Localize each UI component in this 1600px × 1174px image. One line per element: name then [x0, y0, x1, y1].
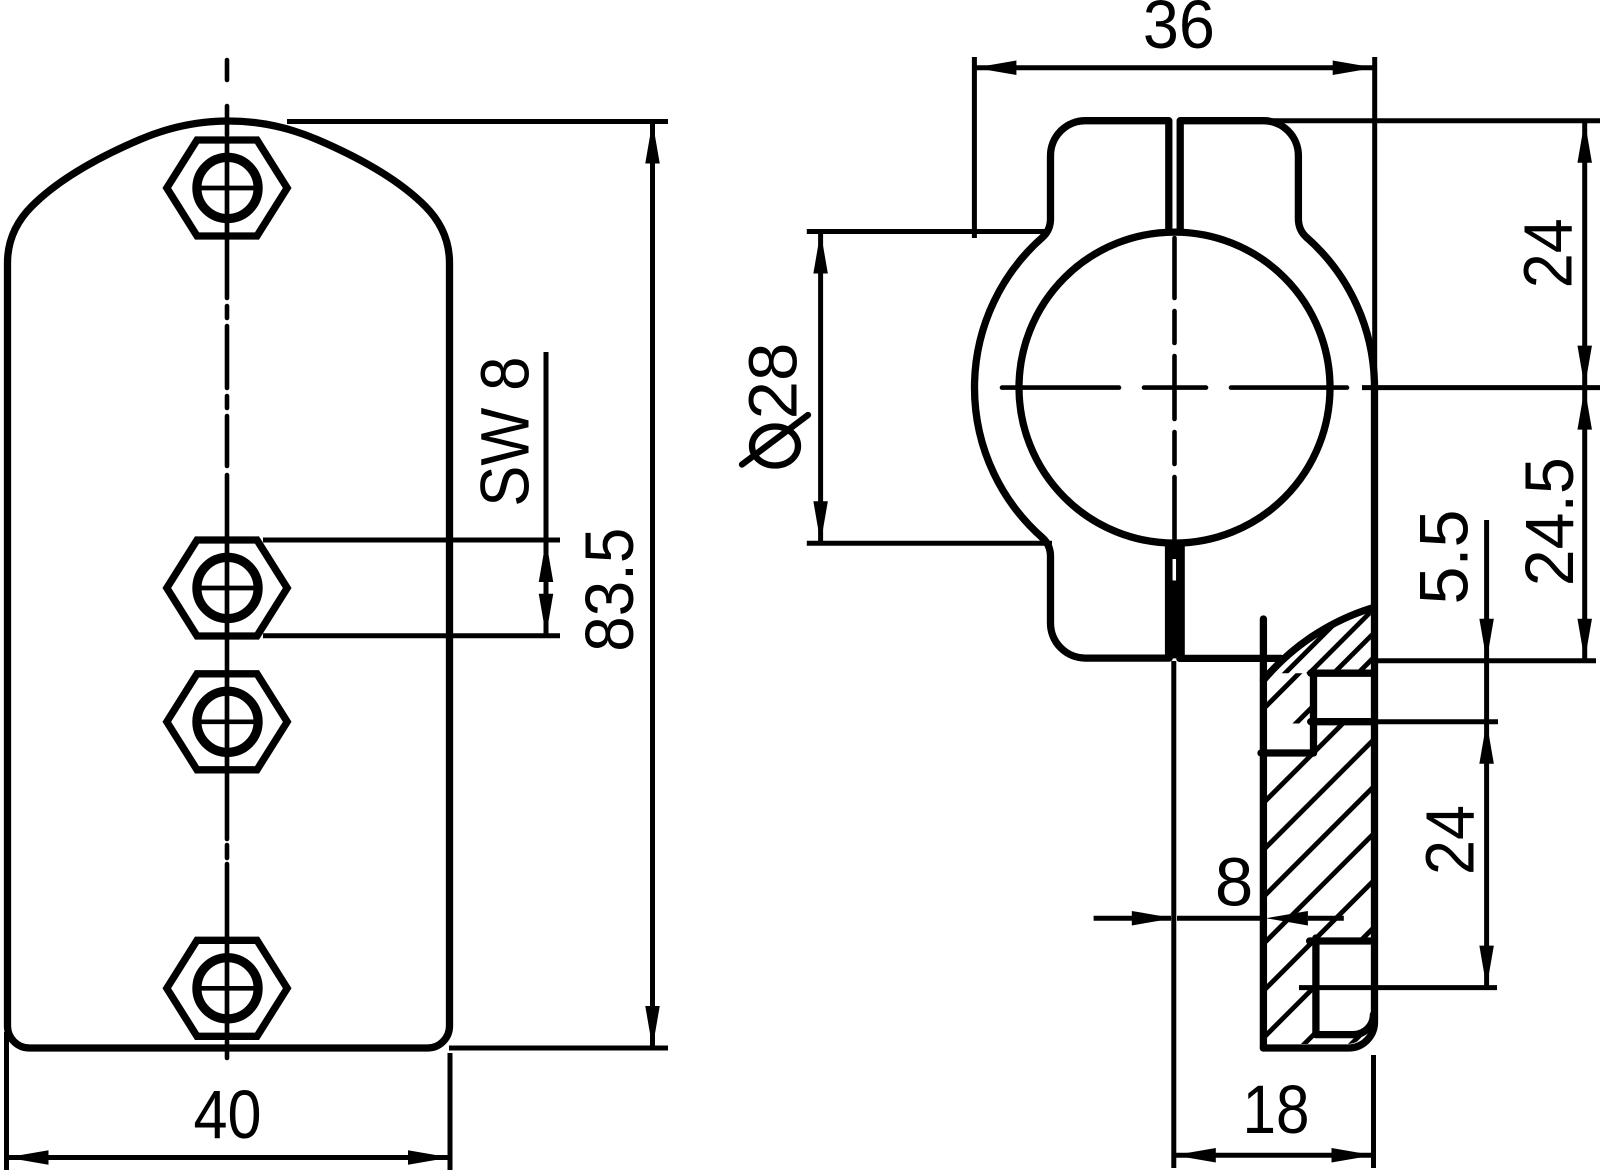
- dimension 83.5: extension lines, dimension line, arrows: [287, 119, 668, 124]
- lower hole outlines: [1310, 937, 1375, 944]
- svg-text:8: 8: [1215, 844, 1253, 921]
- right side extension lines: [1269, 118, 1600, 123]
- lower hole white fill: [1317, 945, 1372, 1033]
- svg-text:36: 36: [1143, 0, 1215, 63]
- right view: bottom edge right of slot: [1180, 655, 1281, 662]
- svg-text:24: 24: [1510, 218, 1587, 288]
- right view: outer body left arc: [975, 238, 1043, 538]
- dimension Ø28: extension lines, dimension line, arrows: [807, 229, 1050, 234]
- dimension 8: leader lines and arrows: [1094, 916, 1171, 921]
- upper hole outlines: [1311, 670, 1371, 677]
- right view: top left clamp tab: [1042, 121, 1169, 238]
- left view: mounting plate body outline: [8, 121, 450, 1048]
- right view: outer body right arc: [1307, 238, 1375, 388]
- dimension 18: extension line, dimension line, arrows: [1371, 1055, 1376, 1168]
- center plane extension line below: [1171, 661, 1176, 1168]
- right view: bottom slot lines: [1165, 543, 1185, 658]
- svg-text:28: 28: [735, 343, 812, 420]
- right view: bottom left lug: [1042, 538, 1169, 659]
- lower hole centerline: [1299, 985, 1497, 990]
- dimension 5.5 and lower 24: shared dimension line, arrows: [1484, 520, 1489, 988]
- dimension 36: extension lines, dimension line, arrows: [972, 57, 977, 238]
- svg-text:24.5: 24.5: [1511, 457, 1588, 586]
- svg-text:83.5: 83.5: [571, 528, 648, 652]
- svg-text:18: 18: [1243, 1071, 1310, 1148]
- hex screw 1 (SW 8 nut with slotted head): [167, 140, 287, 236]
- svg-text:40: 40: [194, 1076, 262, 1153]
- right view: flange top silhouette arc: [1263, 608, 1371, 680]
- hex screw 4 (SW 8 nut with slotted head): [167, 940, 287, 1036]
- hex screw 3 (SW 8 nut with slotted head): [167, 674, 287, 770]
- hex screw 2 (SW 8 nut with slotted head): [167, 540, 287, 636]
- dimension 40: extension lines, dimension line, arrows: [4, 1032, 9, 1170]
- svg-text:24: 24: [1412, 805, 1489, 875]
- dimension 24 (top right): dimension line, arrows: [1582, 121, 1587, 388]
- right view: flange right face + bottom edge: [1263, 388, 1374, 1048]
- dimension 24.5: dimension line, arrows: [1582, 388, 1587, 661]
- right view: bore circle (inner diameter 28): [1019, 232, 1330, 543]
- label Ø28: [752, 427, 798, 466]
- dimension SW 8: extension lines, dimension line, arrows: [263, 538, 560, 543]
- upper hole white fill (stepped countersink): [1314, 675, 1373, 721]
- right view: flange left face: [1260, 619, 1267, 1048]
- right view: top right clamp tab: [1180, 121, 1307, 238]
- left view: vertical centerline: [225, 60, 230, 80]
- right view: vertical centerline: [1172, 238, 1177, 298]
- svg-text:5.5: 5.5: [1405, 510, 1482, 605]
- right view: horizontal centerline: [1002, 385, 1119, 390]
- svg-text:SW 8: SW 8: [466, 357, 543, 507]
